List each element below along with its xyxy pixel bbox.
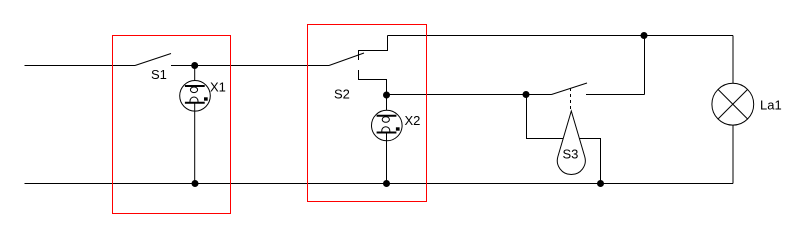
svg-text:X1: X1 xyxy=(210,80,226,95)
switch S2 upper throw contact xyxy=(359,36,388,61)
wire X1 top lead xyxy=(194,66,196,86)
lamp La1 xyxy=(712,83,754,125)
red frame box 1 (S1/X1 group) xyxy=(113,36,231,214)
node junction above X1 xyxy=(191,62,198,69)
wire S1 output to S2 xyxy=(171,65,329,67)
switch S2 blade xyxy=(329,53,364,66)
wire X2 bottom lead xyxy=(386,133,388,184)
socket X2 xyxy=(372,110,403,141)
node junction S2 lower throw xyxy=(383,92,390,99)
wire S3 cord branch down xyxy=(527,95,601,184)
svg-text:X2: X2 xyxy=(405,113,421,128)
red frame box 2 (S2/X2 group) xyxy=(308,25,427,202)
switch S3 actuator dashed link xyxy=(570,88,572,111)
svg-text:S3: S3 xyxy=(563,147,579,162)
svg-text:S1: S1 xyxy=(151,67,167,82)
wire S3 up to top net xyxy=(644,36,646,95)
wire lamp bottom lead xyxy=(732,125,734,183)
wire X1 bottom lead xyxy=(194,103,196,184)
node junction bottom below X1 xyxy=(192,180,199,187)
wire S3 fixed contact xyxy=(586,94,645,96)
node junction bottom below S3 branch xyxy=(597,180,604,187)
wire top net to lamp xyxy=(388,35,734,37)
switch S2 lower throw contact xyxy=(359,70,387,95)
switch S3 blade xyxy=(552,83,588,95)
wire middle net S2 to S3 xyxy=(387,94,552,96)
socket X1 xyxy=(180,81,211,112)
switch S3 pull-cord body xyxy=(557,111,585,175)
node junction bottom below X2 xyxy=(383,180,390,187)
switch S1 blade xyxy=(135,54,171,66)
node junction left of S3 xyxy=(523,91,530,98)
svg-text:S2: S2 xyxy=(334,87,350,102)
node junction top above S3 xyxy=(641,32,648,39)
svg-text:La1: La1 xyxy=(760,98,782,113)
wire top-left L1 feed xyxy=(25,65,136,67)
wire X2 top lead xyxy=(386,95,388,115)
wire bottom N return xyxy=(25,183,734,185)
wire lamp top lead xyxy=(732,36,734,84)
